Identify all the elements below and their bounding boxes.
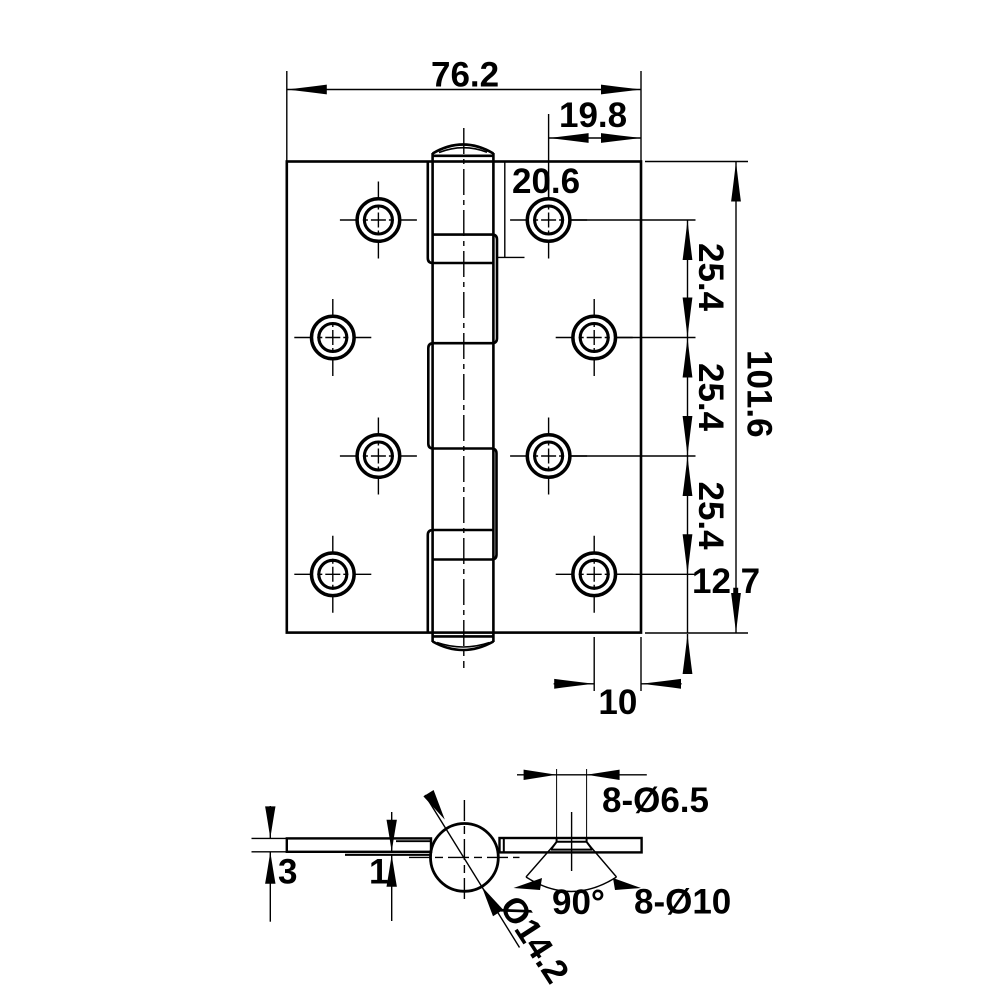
dimension 8-O6.5 — [556, 769, 558, 837]
dimension texts front — [431, 56, 779, 723]
dimension 12.7 line — [687, 574, 689, 633]
svg-text:3: 3 — [278, 853, 297, 892]
hinge leaf plate outline (front view) — [287, 162, 641, 633]
svg-text:8-Ø6.5: 8-Ø6.5 — [602, 781, 709, 820]
screw hole row3-right — [510, 418, 587, 495]
screw hole row2-left — [294, 299, 371, 376]
90 deg dimension arc — [526, 877, 617, 892]
knuckle 5 outline (left offset, bottom) — [428, 530, 494, 633]
second leaf hidden top edge — [396, 840, 431, 842]
screw hole row4-left — [294, 536, 371, 613]
dimension 19.8 extension line — [548, 114, 550, 199]
countersink 90 deg construction lines — [526, 842, 617, 877]
dimension 76.2 extension lines — [286, 71, 288, 162]
hole centerline — [571, 812, 573, 871]
svg-text:19.8: 19.8 — [559, 96, 627, 135]
screw hole top-left — [340, 182, 417, 259]
screw hole row3-left — [340, 418, 417, 495]
dimension texts section — [278, 781, 731, 990]
arc arrows — [514, 878, 543, 890]
screw hole row2-right — [556, 299, 633, 376]
dimensions front view — [287, 71, 748, 691]
dimension 20.6 helper lines — [497, 162, 525, 258]
svg-text:25.4: 25.4 — [691, 243, 730, 312]
dimension 10 extension lines — [593, 637, 595, 691]
dimension 101.6 line — [735, 162, 737, 634]
right leaf cross-section — [500, 838, 642, 852]
svg-text:10: 10 — [598, 683, 637, 722]
svg-text:101.6: 101.6 — [740, 350, 779, 438]
barrel pin centerline — [463, 128, 465, 668]
svg-text:25.4: 25.4 — [691, 363, 730, 432]
barrel main sides — [433, 153, 494, 642]
knuckle 1 outline (left offset) — [428, 162, 494, 264]
dimension 10 line — [554, 683, 595, 685]
dimension 19.8 line — [549, 137, 641, 139]
screw hole row4-right — [556, 536, 633, 613]
screw hole top-right — [510, 182, 587, 259]
svg-text:90°: 90° — [552, 883, 605, 922]
dimension 1 — [391, 812, 393, 921]
O14.2 leader arrow lower — [482, 887, 503, 917]
dimension 101.6 extension lines — [645, 161, 748, 163]
svg-text:20.6: 20.6 — [512, 162, 580, 201]
svg-text:76.2: 76.2 — [431, 56, 499, 95]
O14.2 leader line — [425, 795, 520, 948]
knuckle joints serpentine (rings right/left) — [428, 235, 497, 560]
SECTION VIEW — [252, 769, 647, 948]
row extension lines — [570, 219, 696, 221]
dimension 3 — [252, 806, 287, 922]
barrel circle — [431, 824, 499, 892]
dimension 25.4 line 2 — [687, 338, 689, 457]
barrel circle crosshair — [409, 856, 520, 858]
barrel bottom cap — [433, 636, 494, 650]
screw holes — [294, 182, 632, 613]
countersunk hole — [551, 838, 593, 850]
O14.2 leader arrow upper — [423, 790, 444, 820]
svg-text:1: 1 — [369, 853, 388, 892]
svg-text:25.4: 25.4 — [691, 482, 730, 551]
dimension 25.4 line 1 — [687, 220, 689, 338]
FRONT VIEW — [287, 128, 641, 668]
left leaf cross-section — [287, 838, 431, 851]
second leaf hidden bottom edge (1mm offset) — [345, 854, 431, 856]
dimension 25.4 line 3 — [687, 456, 689, 574]
svg-text:8-Ø10: 8-Ø10 — [634, 883, 731, 922]
dimension 76.2 line — [287, 89, 641, 91]
barrel top cap — [433, 145, 494, 156]
svg-text:12.7: 12.7 — [692, 562, 760, 601]
